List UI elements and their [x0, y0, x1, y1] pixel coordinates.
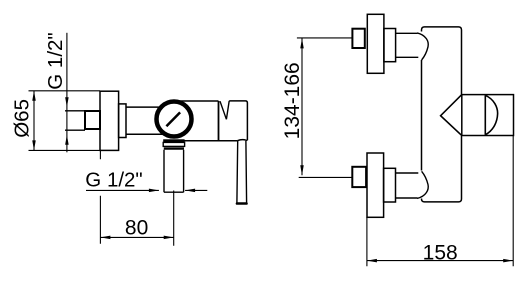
lever handle [237, 141, 247, 203]
svg-text:80: 80 [125, 217, 148, 240]
dimension 134-166 arrows [300, 38, 304, 175]
svg-text:G 1/2": G 1/2" [44, 32, 67, 89]
leader G 1/2 bottom with arrow [86, 189, 159, 191]
handle cap [229, 101, 247, 140]
top eccentric pipe [396, 33, 419, 57]
handle cone [441, 95, 462, 136]
wall flange Ø65 [100, 91, 119, 150]
cartridge housing top edge [176, 100, 219, 102]
dimension 80 line [100, 236, 173, 238]
dimension Ø65 arrows [32, 91, 36, 151]
body bottom edge [185, 140, 238, 142]
bottom pipe seat bulge [417, 171, 428, 198]
lever end cap [237, 202, 247, 205]
dimension 158 extension lines [367, 136, 513, 267]
top inlet thread square [352, 29, 364, 48]
body small cylinder [126, 107, 166, 134]
handle knob [462, 95, 514, 136]
dimension 134-166 extension lines [297, 38, 353, 178]
knob dome arc [485, 95, 497, 135]
top wall flange [367, 14, 384, 73]
dimension 80 arrows [100, 236, 173, 240]
dimension 134-166 line [301, 38, 303, 175]
notch between body and handle cap [220, 101, 229, 119]
mixer body column [422, 27, 462, 202]
pipe joint line [164, 147, 184, 149]
bottom wall flange [367, 153, 384, 217]
bottom inlet thread square [352, 167, 366, 187]
union nut square G 1/2 [85, 111, 100, 129]
bottom eccentric pipe [396, 173, 419, 198]
dimension Ø65 extension lines [29, 91, 101, 151]
svg-text:158: 158 [423, 241, 458, 264]
lever shoulder arch [237, 140, 247, 141]
top pipe seat bulge [417, 33, 428, 60]
dial slot [166, 112, 180, 126]
dimension 158 line [367, 260, 513, 262]
bottom union nut [384, 168, 396, 202]
svg-text:Ø65: Ø65 [11, 99, 34, 138]
collar band outline [163, 142, 184, 146]
right side arrow of G 1/2 leader [185, 189, 207, 191]
temperature dial ring [157, 102, 192, 137]
body end face [218, 101, 220, 141]
dimension G 1/2 top arrows [65, 97, 69, 145]
dimension G 1/2 top stem [66, 33, 68, 153]
neck [119, 104, 126, 138]
inlet nipple (wall pipe) [65, 111, 85, 130]
svg-text:134-166: 134-166 [281, 62, 304, 139]
dimension Ø65 line [33, 91, 35, 151]
dimension 80 extension lines [100, 150, 173, 245]
dimension 158 arrows [367, 259, 513, 263]
top union nut [384, 29, 396, 62]
outlet pipe [164, 150, 184, 192]
collar band dark [163, 139, 184, 142]
svg-text:G 1/2": G 1/2" [85, 168, 142, 191]
knob dome chord [484, 95, 486, 135]
